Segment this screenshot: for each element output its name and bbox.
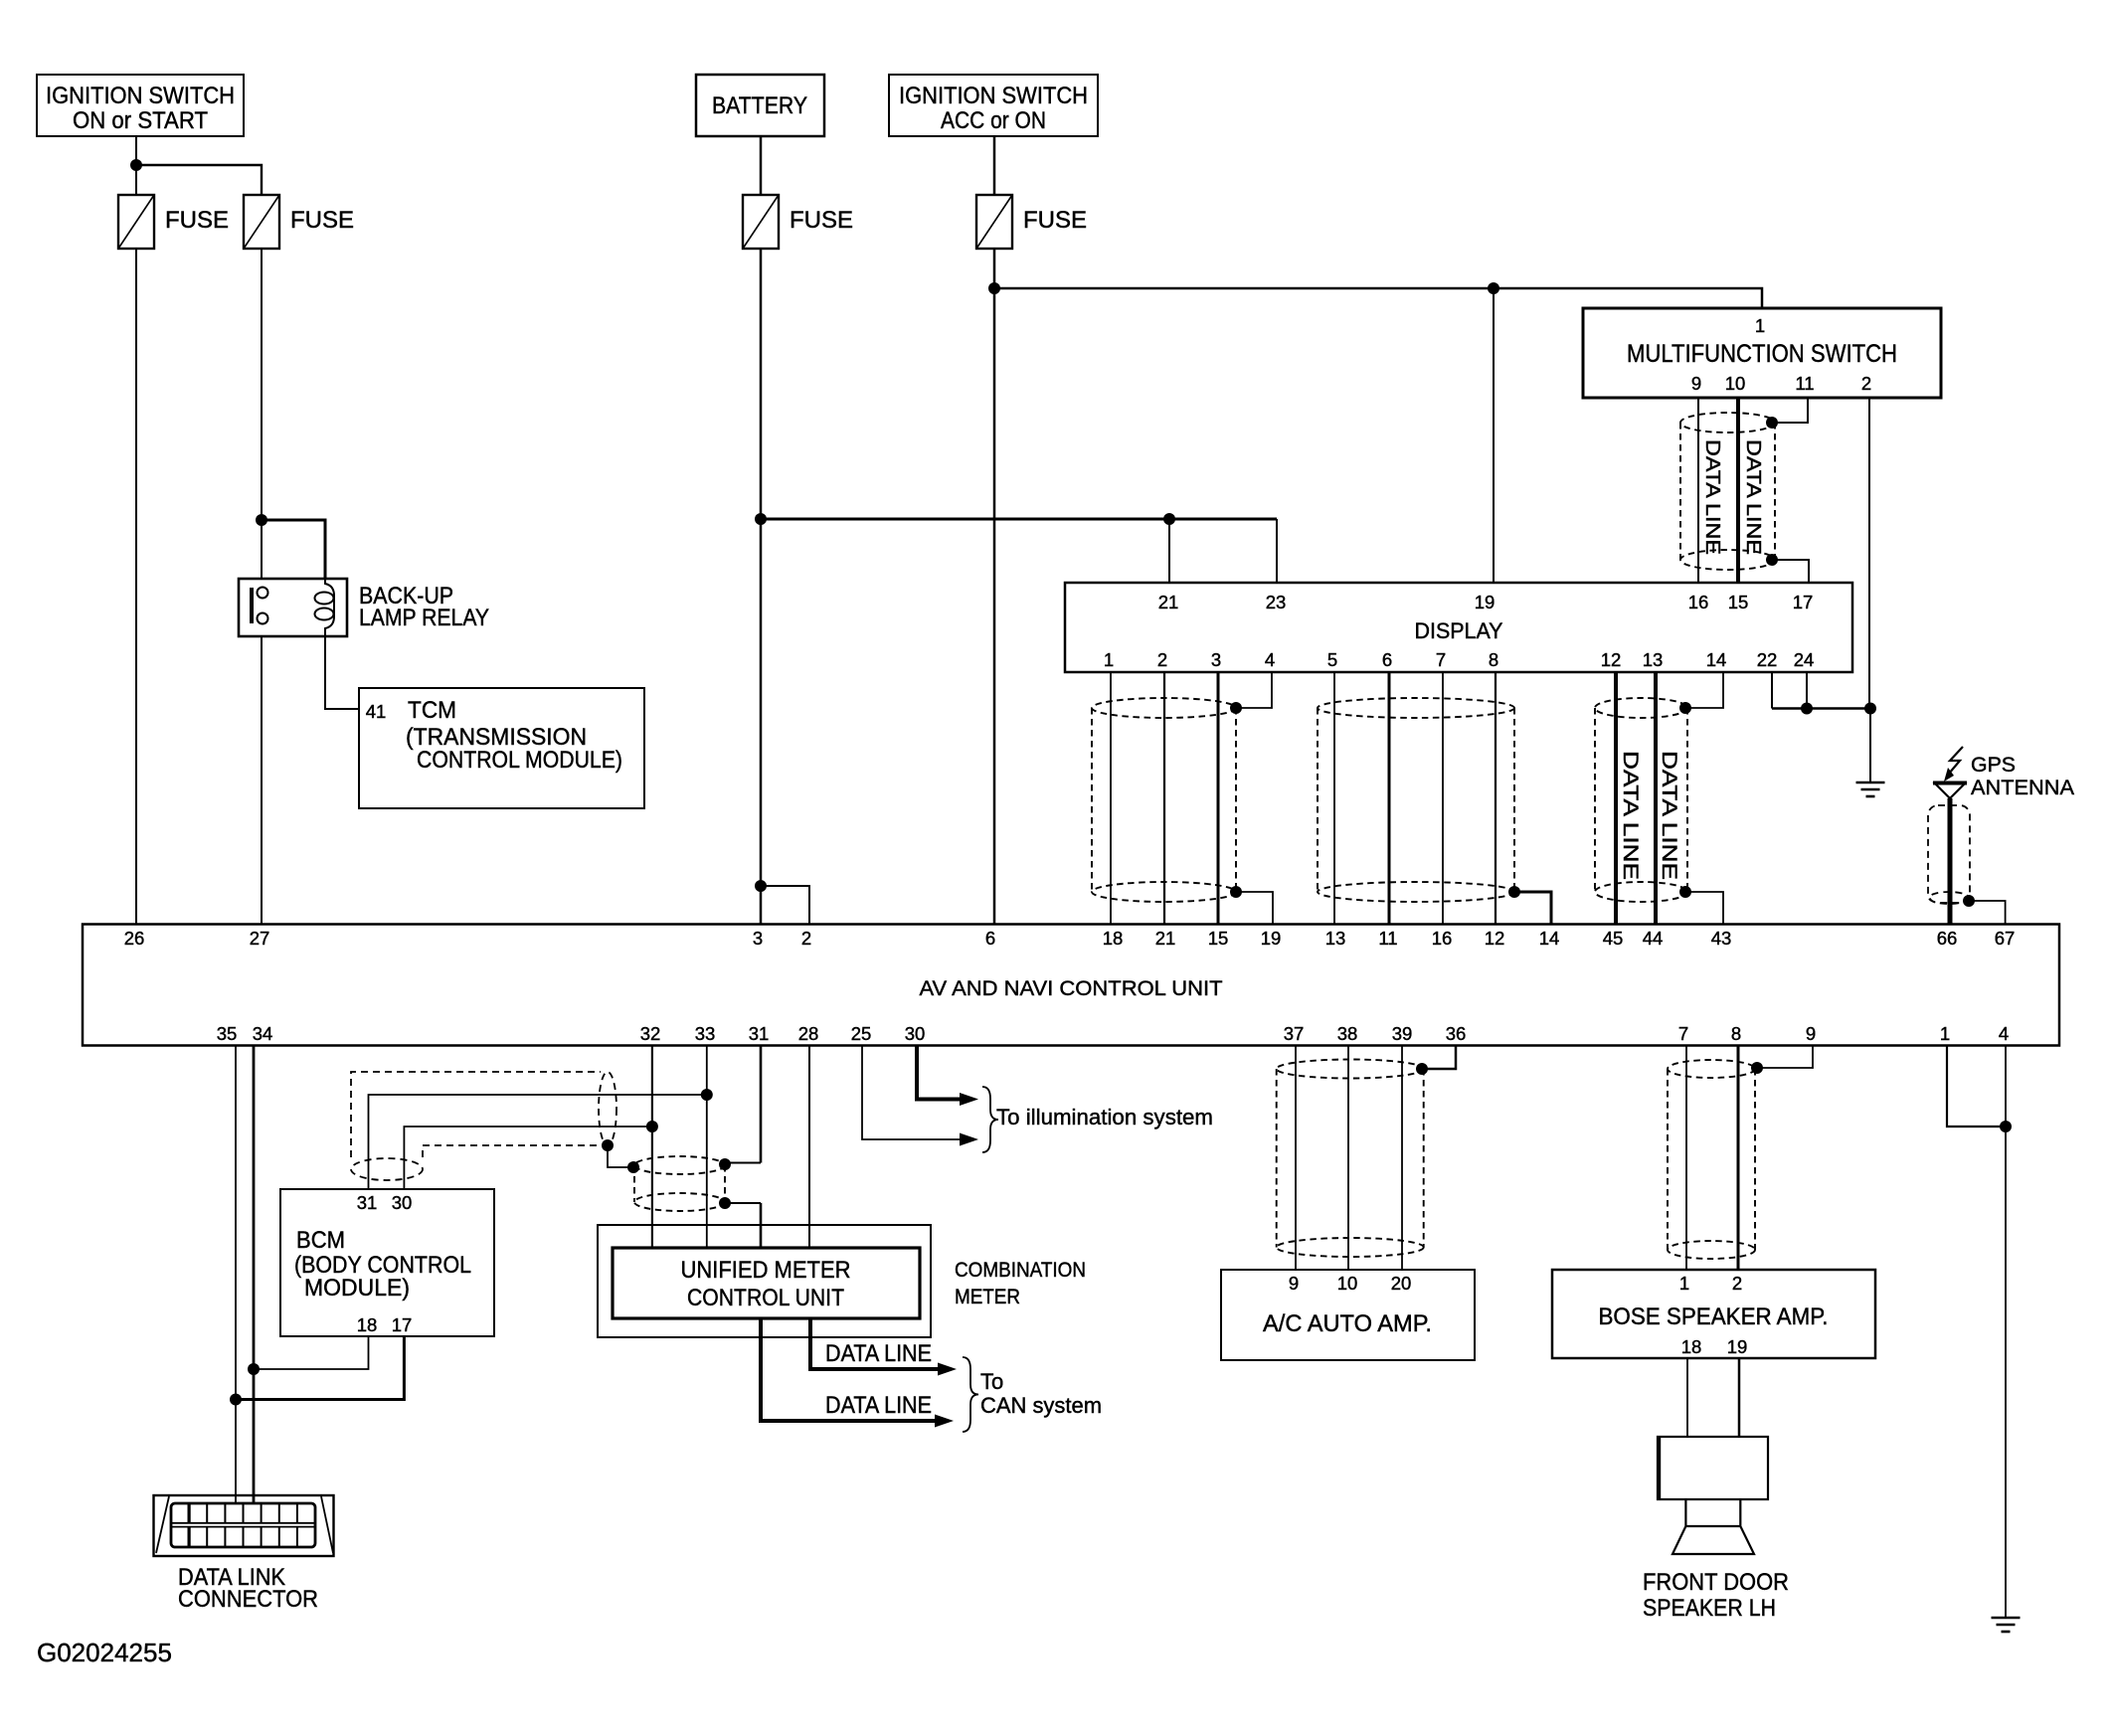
junction shield top xyxy=(1766,417,1778,429)
svg-text:ANTENNA: ANTENNA xyxy=(1971,777,2074,799)
wire display 8 to AV 12 xyxy=(1495,672,1496,924)
svg-text:32: 32 xyxy=(640,1023,661,1044)
junction small shield top-left xyxy=(627,1161,639,1173)
brace illumination xyxy=(982,1087,998,1152)
svg-text:ACC or ON: ACC or ON xyxy=(941,107,1046,134)
svg-text:LAMP RELAY: LAMP RELAY xyxy=(359,605,489,631)
wire data line display 12 to AV 45 xyxy=(1614,672,1618,924)
wire AV 1 to ground wire xyxy=(1947,1046,2006,1128)
module box BOSE SPEAKER AMP. xyxy=(1552,1270,1875,1358)
brace CAN xyxy=(963,1357,978,1432)
svg-text:CONTROL MODULE): CONTROL MODULE) xyxy=(417,747,622,774)
svg-text:DATA LINE: DATA LINE xyxy=(1742,439,1764,555)
module box AV AND NAVI CONTROL UNIT xyxy=(83,925,2059,1046)
wire display 1 to AV 18 xyxy=(1110,672,1112,924)
svg-text:2: 2 xyxy=(1732,1273,1742,1294)
svg-text:FUSE: FUSE xyxy=(165,207,229,234)
wire display 5 to AV 13 xyxy=(1333,672,1335,924)
shield cylinder small above combination meter xyxy=(634,1156,725,1211)
wire fuse2 to back-up lamp relay xyxy=(261,249,263,520)
wire AV 32 to unified meter xyxy=(651,1046,653,1249)
ground G1 xyxy=(1856,782,1885,796)
svg-text:SPEAKER LH: SPEAKER LH xyxy=(1643,1595,1776,1622)
power source box BATTERY xyxy=(696,75,824,136)
junction shield A top xyxy=(1230,702,1242,714)
wire AV 28 to unified meter xyxy=(808,1046,810,1249)
wire branch to relay coil xyxy=(262,520,325,579)
wire display 14 to shield C xyxy=(1685,672,1723,708)
wire display 4 to shield A xyxy=(1236,672,1272,708)
wire relay contact to AV pin 27 xyxy=(261,623,263,924)
junction GPS shield drain xyxy=(1963,895,1975,907)
wire shield A drain to AV 19 xyxy=(1236,892,1273,924)
junction junction AV1/AV4 xyxy=(2000,1121,2012,1132)
arrow CAN lower xyxy=(935,1415,954,1428)
wire BOSE 19 to speaker xyxy=(1738,1358,1741,1437)
svg-text:1: 1 xyxy=(1940,1023,1950,1044)
junction shield bottom xyxy=(1766,554,1778,566)
wire battery to fuse 3 xyxy=(760,136,763,195)
wire AV 25 to illumination xyxy=(862,1046,961,1140)
shield cylinder around MF data lines xyxy=(1680,413,1775,570)
wire down to unified meter xyxy=(760,1203,763,1248)
svg-text:12: 12 xyxy=(1601,649,1622,670)
wire fuse3 down to AV pin 3 xyxy=(760,249,763,924)
junction junction 35/BCM17 xyxy=(230,1394,242,1406)
wire MF pin 9 to display pin 16 xyxy=(1697,398,1699,583)
svg-text:1: 1 xyxy=(1679,1273,1689,1294)
wire AV 38 to A/C amp 10 xyxy=(1347,1046,1349,1271)
svg-text:4: 4 xyxy=(1265,649,1275,670)
svg-text:DATA LINE: DATA LINE xyxy=(1658,751,1680,880)
junction shield B bottom xyxy=(1508,886,1520,898)
svg-text:36: 36 xyxy=(1446,1023,1467,1044)
svg-text:15: 15 xyxy=(1728,592,1749,612)
svg-text:15: 15 xyxy=(1208,928,1229,949)
svg-text:35: 35 xyxy=(217,1023,238,1044)
svg-text:1: 1 xyxy=(1755,315,1765,336)
svg-text:37: 37 xyxy=(1284,1023,1305,1044)
wire CAN data line upper xyxy=(810,1318,939,1369)
svg-text:IGNITION SWITCH: IGNITION SWITCH xyxy=(899,83,1088,109)
svg-text:26: 26 xyxy=(124,928,145,949)
wire AV 31 jog into small shield xyxy=(725,1162,761,1164)
junction ignition ON branch xyxy=(130,159,142,171)
junction junction 34/BCM18 xyxy=(248,1363,260,1375)
junction ACC branch xyxy=(988,282,1000,294)
junction ground link junction 2 xyxy=(1864,703,1876,715)
svg-text:19: 19 xyxy=(1727,1336,1748,1357)
svg-text:8: 8 xyxy=(1731,1023,1741,1044)
junction branch to display pin 19 xyxy=(1488,282,1499,294)
svg-text:BATTERY: BATTERY xyxy=(712,92,807,119)
svg-text:2: 2 xyxy=(1861,373,1871,394)
svg-text:39: 39 xyxy=(1392,1023,1413,1044)
wire AV 33 to unified meter xyxy=(706,1046,708,1249)
wire CAN data line lower xyxy=(761,1318,936,1421)
svg-text:UNIFIED METER: UNIFIED METER xyxy=(681,1257,851,1284)
wire jog to AV pin 2 xyxy=(761,886,809,924)
GPS shield xyxy=(1928,805,1970,903)
svg-text:A/C AUTO AMP.: A/C AUTO AMP. xyxy=(1263,1310,1432,1337)
svg-text:MULTIFUNCTION SWITCH: MULTIFUNCTION SWITCH xyxy=(1627,340,1897,368)
wire branch to fuse 2 xyxy=(136,165,262,195)
svg-text:44: 44 xyxy=(1643,928,1664,949)
svg-text:BCM: BCM xyxy=(296,1227,345,1254)
shield cylinder C around display data lines xyxy=(1595,698,1687,902)
svg-text:16: 16 xyxy=(1688,592,1709,612)
svg-text:30: 30 xyxy=(905,1023,926,1044)
svg-text:FUSE: FUSE xyxy=(790,207,853,234)
wire drop to display pin 23 xyxy=(1276,519,1278,583)
wire battery feed line to display xyxy=(761,518,1277,521)
wire ACC feed line to multifunction switch pin 1 xyxy=(994,288,1762,308)
shield cylinder around A/C amp wires xyxy=(1277,1060,1424,1258)
svg-text:2: 2 xyxy=(801,928,811,949)
wire data line display 13 to AV 44 xyxy=(1654,672,1658,924)
svg-text:11: 11 xyxy=(1378,928,1397,949)
svg-text:10: 10 xyxy=(1337,1273,1358,1294)
svg-text:DATA LINE: DATA LINE xyxy=(825,1340,932,1367)
svg-text:14: 14 xyxy=(1706,649,1727,670)
junction battery branch to AV pin 2 xyxy=(755,880,767,892)
svg-text:7: 7 xyxy=(1436,649,1446,670)
svg-text:TCM: TCM xyxy=(408,697,456,724)
module box DISPLAY xyxy=(1065,583,1852,672)
svg-text:66: 66 xyxy=(1937,928,1958,949)
shield cylinder around BOSE amp wires xyxy=(1668,1060,1755,1259)
svg-text:DATA LINE: DATA LINE xyxy=(1701,439,1723,555)
junction small shield top-right xyxy=(719,1158,731,1170)
svg-text:11: 11 xyxy=(1795,373,1814,394)
svg-text:13: 13 xyxy=(1643,649,1664,670)
svg-text:9: 9 xyxy=(1691,373,1701,394)
svg-text:18: 18 xyxy=(1681,1336,1702,1357)
wire display 6 to AV 11 xyxy=(1388,672,1391,924)
svg-text:21: 21 xyxy=(1158,592,1179,612)
wire shield drain to display pin 17 xyxy=(1772,560,1809,583)
svg-text:IGNITION SWITCH: IGNITION SWITCH xyxy=(46,83,235,109)
svg-text:ON or START: ON or START xyxy=(73,107,208,134)
speaker FRONT DOOR SPEAKER LH xyxy=(1658,1436,1768,1554)
fuse FUSE 4 xyxy=(976,195,1012,249)
junction tube drain junction xyxy=(602,1139,614,1151)
svg-text:METER: METER xyxy=(955,1286,1020,1308)
svg-text:3: 3 xyxy=(1211,649,1221,670)
fuse FUSE 1 xyxy=(118,195,154,249)
svg-text:FUSE: FUSE xyxy=(290,207,354,234)
wire drop to display pin 21 xyxy=(1168,519,1170,583)
wire BCM 18 to wire 34 xyxy=(254,1336,369,1369)
junction BOSE shield drain xyxy=(1751,1062,1763,1074)
wire MF pin 2 to ground line xyxy=(1868,398,1870,709)
wire ground link line xyxy=(1772,707,1870,710)
wire BOSE shield drain to AV 9 xyxy=(1757,1046,1813,1069)
shield cylinder A around display wires 1-3 xyxy=(1092,698,1236,902)
power source box IGNITION SWITCH ACC or ON xyxy=(889,75,1098,136)
svg-text:24: 24 xyxy=(1794,649,1815,670)
wire display 3 to AV 15 xyxy=(1217,672,1220,924)
wire MF pin 11 to shield xyxy=(1772,398,1808,423)
wire AV 4 to ground G2 xyxy=(2005,1046,2007,1619)
svg-text:12: 12 xyxy=(1485,928,1505,949)
wire AV 7 to BOSE amp 1 xyxy=(1685,1046,1687,1271)
junction shield C top xyxy=(1679,702,1691,714)
module box A/C AUTO AMP. xyxy=(1221,1270,1475,1360)
wire ignition ON feed down to fuses xyxy=(135,136,137,195)
wire AV 37 to A/C amp 9 xyxy=(1295,1046,1297,1271)
svg-text:21: 21 xyxy=(1155,928,1176,949)
svg-text:7: 7 xyxy=(1678,1023,1688,1044)
svg-text:31: 31 xyxy=(749,1023,770,1044)
arrow illumination lower xyxy=(960,1133,978,1146)
wire BCM 31 to AV 33 wire xyxy=(369,1095,707,1189)
junction small shield bottom-right xyxy=(719,1197,731,1209)
wire shield C drain to AV 43 xyxy=(1685,892,1723,924)
wire GPS shield drain to AV 67 xyxy=(1969,901,2006,924)
svg-text:19: 19 xyxy=(1261,928,1282,949)
svg-text:27: 27 xyxy=(250,928,270,949)
svg-text:6: 6 xyxy=(985,928,995,949)
fuse FUSE 2 xyxy=(244,195,279,249)
wire BCM 30 to AV 32 wire xyxy=(404,1127,652,1189)
junction shield C bottom xyxy=(1679,886,1691,898)
wire drop to display pin 19 xyxy=(1493,288,1495,583)
module box UNIFIED METER CONTROL UNIT xyxy=(613,1248,920,1318)
svg-text:DATA LINE: DATA LINE xyxy=(825,1392,932,1419)
wire shield B drain to AV 14 xyxy=(1514,892,1551,924)
svg-text:18: 18 xyxy=(357,1314,378,1335)
svg-text:31: 31 xyxy=(357,1192,378,1213)
svg-text:38: 38 xyxy=(1337,1023,1358,1044)
DATA LINK CONNECTOR symbol xyxy=(154,1495,334,1556)
svg-text:To illumination system: To illumination system xyxy=(996,1105,1213,1129)
svg-text:MODULE): MODULE) xyxy=(304,1275,410,1302)
svg-text:To: To xyxy=(980,1369,1003,1394)
svg-text:COMBINATION: COMBINATION xyxy=(955,1259,1086,1282)
svg-text:28: 28 xyxy=(798,1023,819,1044)
svg-text:9: 9 xyxy=(1806,1023,1816,1044)
junction shield A bottom xyxy=(1230,886,1242,898)
svg-text:19: 19 xyxy=(1475,592,1496,612)
junction junction on wire 33 xyxy=(701,1089,713,1101)
svg-text:45: 45 xyxy=(1603,928,1624,949)
wire AV 34 to data link connector xyxy=(253,1046,256,1504)
wire tube drain to small shield xyxy=(608,1145,633,1167)
arrow CAN upper xyxy=(938,1363,957,1376)
svg-text:25: 25 xyxy=(851,1023,872,1044)
wire AV 39 to A/C amp 20 xyxy=(1401,1046,1403,1271)
ground G2 xyxy=(1992,1618,2021,1632)
module box BCM (BODY CONTROL MODULE) xyxy=(280,1189,494,1336)
wire relay coil to TCM pin 41 xyxy=(325,636,359,709)
svg-text:G02024255: G02024255 xyxy=(37,1638,172,1667)
wire display 2 to AV 21 xyxy=(1163,672,1165,924)
svg-text:8: 8 xyxy=(1489,649,1498,670)
svg-text:GPS: GPS xyxy=(1971,754,2016,777)
svg-text:FRONT DOOR: FRONT DOOR xyxy=(1643,1569,1789,1596)
wire down to ground G1 xyxy=(1869,709,1871,783)
wire BOSE 18 to speaker xyxy=(1686,1358,1688,1437)
svg-text:3: 3 xyxy=(753,928,763,949)
wire ignition ACC to fuse 4 xyxy=(993,136,996,195)
svg-text:33: 33 xyxy=(695,1023,716,1044)
wire fuse1 to AV pin 26 xyxy=(135,249,137,924)
svg-text:41: 41 xyxy=(366,701,387,722)
svg-text:30: 30 xyxy=(392,1192,413,1213)
svg-text:17: 17 xyxy=(1793,592,1814,612)
wire display 7 to AV 16 xyxy=(1442,672,1444,924)
svg-text:2: 2 xyxy=(1157,649,1167,670)
module box TCM (TRANSMISSION CONTROL MODULE) xyxy=(359,688,644,808)
wire AV 30 to illumination xyxy=(917,1046,961,1100)
svg-text:23: 23 xyxy=(1266,592,1287,612)
wire AV 8 to BOSE amp 2 xyxy=(1737,1046,1740,1271)
junction A/C shield drain xyxy=(1416,1063,1428,1075)
svg-text:BOSE SPEAKER AMP.: BOSE SPEAKER AMP. xyxy=(1599,1303,1829,1330)
wire fuse4 down to AV pin 6 xyxy=(993,249,996,924)
wire display 22 down xyxy=(1771,672,1773,709)
fuse FUSE 3 xyxy=(743,195,779,249)
wire GPS antenna coax to AV 66 xyxy=(1948,798,1953,924)
svg-text:10: 10 xyxy=(1725,373,1746,394)
junction relay coil branch xyxy=(256,514,267,526)
svg-text:CAN system: CAN system xyxy=(980,1393,1102,1418)
svg-text:AV AND NAVI CONTROL UNIT: AV AND NAVI CONTROL UNIT xyxy=(920,976,1223,1000)
junction ground link junction 24 xyxy=(1801,703,1813,715)
svg-text:18: 18 xyxy=(1103,928,1124,949)
svg-text:34: 34 xyxy=(253,1023,273,1044)
wire small shield jog out xyxy=(725,1202,761,1204)
svg-text:17: 17 xyxy=(392,1314,413,1335)
svg-text:5: 5 xyxy=(1327,649,1337,670)
wire relay contact upper xyxy=(261,520,263,588)
arrow illumination upper xyxy=(960,1093,978,1106)
svg-text:67: 67 xyxy=(1995,928,2016,949)
wire AV 35 to data link connector xyxy=(235,1046,237,1504)
svg-text:20: 20 xyxy=(1391,1273,1412,1294)
junction battery branch to display xyxy=(755,513,767,525)
svg-text:22: 22 xyxy=(1757,649,1778,670)
relay BACK-UP LAMP RELAY xyxy=(239,579,347,636)
module box COMBINATION METER xyxy=(598,1225,931,1337)
svg-text:14: 14 xyxy=(1539,928,1560,949)
svg-text:6: 6 xyxy=(1382,649,1392,670)
svg-text:1: 1 xyxy=(1104,649,1114,670)
svg-text:16: 16 xyxy=(1432,928,1453,949)
wire data line MF pin 10 to display pin 15 xyxy=(1736,398,1740,583)
svg-text:FUSE: FUSE xyxy=(1023,207,1087,234)
svg-text:DISPLAY: DISPLAY xyxy=(1415,618,1503,643)
wire BCM 17 to wire 35 xyxy=(236,1336,404,1400)
svg-text:13: 13 xyxy=(1325,928,1346,949)
wire display 24 down xyxy=(1806,672,1808,709)
junction junction on wire 32 xyxy=(646,1121,658,1132)
svg-text:DATA LINE: DATA LINE xyxy=(1619,751,1642,880)
module box MULTIFUNCTION SWITCH xyxy=(1583,308,1941,398)
shield tube around BCM twisted pair xyxy=(351,1072,616,1180)
wire A/C shield drain to AV 36 xyxy=(1422,1046,1456,1070)
wire AV 31 down xyxy=(760,1046,763,1163)
svg-text:CONNECTOR: CONNECTOR xyxy=(178,1586,318,1613)
shield cylinder B around display wires 5-8 xyxy=(1318,698,1514,902)
GPS antenna symbol xyxy=(1933,747,1967,798)
junction branch to display pin 21 xyxy=(1163,513,1175,525)
svg-text:CONTROL UNIT: CONTROL UNIT xyxy=(687,1285,844,1311)
power source box IGNITION SWITCH ON or START xyxy=(37,75,244,136)
svg-text:43: 43 xyxy=(1711,928,1732,949)
svg-text:4: 4 xyxy=(1999,1023,2009,1044)
svg-text:9: 9 xyxy=(1289,1273,1299,1294)
